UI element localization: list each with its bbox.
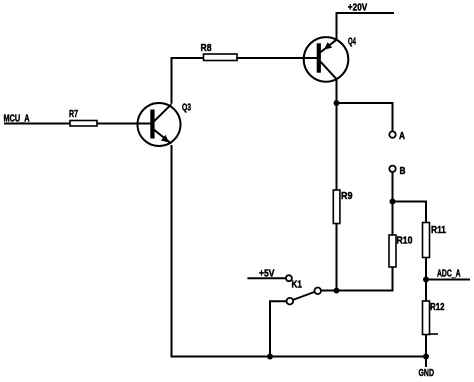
wire MCU_A to R7	[4, 123, 70, 125]
wire B junction to R11	[393, 202, 427, 223]
wire R7 to Q3 base	[97, 123, 152, 125]
svg-text:R12: R12	[430, 302, 445, 313]
wire K1 left contact down to rail	[270, 301, 287, 356]
wire Q4 collector down to R9	[336, 79, 338, 190]
wire R8 to Q4 base	[237, 57, 318, 59]
wire R11 to ADC node	[425, 258, 427, 280]
junction switch/rail	[267, 354, 273, 360]
resistor R11	[423, 223, 430, 258]
svg-text:K1: K1	[292, 280, 303, 291]
resistor R12	[423, 301, 430, 335]
svg-text:R11: R11	[431, 225, 446, 236]
wire +20V to Q4 emitter	[336, 12, 338, 40]
resistor R9	[333, 190, 340, 224]
wire Q3 collector up	[171, 58, 173, 104]
junction B/R11	[390, 199, 396, 205]
wire +5V to K1	[247, 277, 286, 279]
transistor Q4	[304, 37, 357, 82]
svg-text:A: A	[399, 131, 405, 142]
terminal A	[389, 131, 395, 137]
terminal B	[389, 166, 395, 172]
svg-text:Q4: Q4	[348, 37, 356, 48]
wire bottom rail	[171, 356, 427, 358]
wire GND stub	[425, 357, 427, 368]
wire B down to R10	[392, 172, 394, 235]
wire +20V rail	[337, 12, 395, 14]
junction ADC_A	[423, 277, 429, 283]
svg-text:Q3: Q3	[182, 103, 191, 114]
svg-text:R10: R10	[397, 236, 413, 247]
junction R9/switch	[334, 288, 340, 294]
transistor Q3	[138, 103, 192, 147]
junction collector/A	[334, 100, 340, 106]
resistor R10	[389, 235, 396, 267]
resistor R8	[204, 54, 238, 61]
wire R9 down to K1 node	[336, 224, 338, 291]
wire R10 down to switch rail	[321, 267, 393, 291]
stub at R12 bottom	[430, 333, 439, 335]
svg-text:ADC_A: ADC_A	[437, 269, 461, 280]
wire Q3 emitter down	[171, 145, 173, 358]
wire K1 right contact to R9 node	[321, 290, 337, 292]
svg-text:R9: R9	[341, 191, 353, 202]
wire to R8	[171, 57, 204, 59]
wire ADC node to R12	[425, 280, 427, 302]
wire ADC_A	[426, 279, 470, 281]
svg-text:GND: GND	[419, 367, 435, 379]
svg-text:R7: R7	[69, 109, 78, 120]
switch K1	[286, 275, 321, 304]
svg-text:+20V: +20V	[348, 3, 368, 14]
wire R12 to GND	[425, 335, 427, 357]
svg-text:B: B	[400, 166, 406, 177]
wire to terminal A	[337, 103, 393, 131]
svg-text:R8: R8	[201, 43, 212, 54]
resistor R7	[70, 121, 97, 127]
junction GND	[423, 354, 429, 360]
